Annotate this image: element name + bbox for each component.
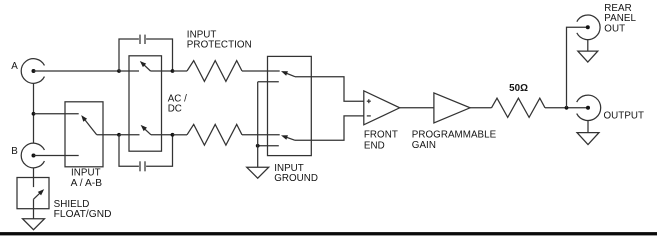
wire ground rail <box>257 82 259 167</box>
resistor R1 input protection (upper) <box>173 61 243 82</box>
resistor R3 50 ohm <box>492 98 546 117</box>
svg-text:B: B <box>11 146 18 157</box>
svg-text:PROTECTION: PROTECTION <box>187 40 252 51</box>
AC/DC coupling box <box>129 56 162 151</box>
node shield rail junction <box>32 112 36 116</box>
label INPUT A / A-B <box>71 167 103 189</box>
wire rear BNC shell to ground <box>587 40 589 51</box>
label INPUT GROUND <box>274 163 318 184</box>
ground (output) <box>577 133 599 145</box>
svg-text:OUT: OUT <box>604 23 625 34</box>
capacitor C2 (AC coupling, lower bypass) <box>119 135 173 172</box>
svg-text:PROGRAMMABLE: PROGRAMMABLE <box>412 130 497 141</box>
svg-text:FRONT: FRONT <box>364 130 398 141</box>
switch S3 AC/DC upper: left contact stub <box>119 70 139 72</box>
label PROGRAMMABLE GAIN <box>412 130 497 152</box>
wire R1 to input-ground switch <box>242 70 280 72</box>
svg-text:GROUND: GROUND <box>274 173 318 184</box>
wire U1 output to U2 <box>400 107 434 109</box>
wire S4 to right junction <box>151 134 173 136</box>
label SHIELD FLOAT/GND <box>54 199 112 220</box>
label AC / DC <box>168 94 187 115</box>
wire S5 ground stub <box>258 81 279 83</box>
node output junction <box>565 106 569 110</box>
wire to shield ground <box>33 209 35 219</box>
svg-text:50Ω: 50Ω <box>509 83 528 94</box>
wire A to AC/DC left junction <box>34 70 120 72</box>
switch S1 INPUT A / A-B box <box>65 102 103 167</box>
node lower channel left junction <box>117 133 121 137</box>
switch S1 lever <box>79 114 96 135</box>
connector A (BNC input) <box>21 59 44 84</box>
label 50 ohm <box>509 83 528 94</box>
connector output (BNC) <box>577 95 601 120</box>
wire B shield to float/gnd switch <box>33 168 35 178</box>
switch S3 lever <box>138 59 150 71</box>
wire S3 to right junction <box>151 70 173 72</box>
svg-text:A / A-B: A / A-B <box>71 178 103 189</box>
label B <box>11 146 18 157</box>
capacitor C1 (AC coupling, upper bypass) <box>119 35 173 71</box>
switch S2 SHIELD FLOAT/GND box <box>17 178 49 209</box>
label OUTPUT <box>604 110 645 121</box>
wire S6 output to front end - <box>295 116 364 140</box>
ground (rear panel out) <box>578 51 598 62</box>
op-amp U2 programmable gain <box>434 93 470 123</box>
connector B (BNC input) <box>21 143 44 168</box>
switch S4 lever <box>139 123 151 135</box>
INPUT GROUND box <box>268 56 312 155</box>
wire S1 common output <box>97 134 119 136</box>
svg-text:GAIN: GAIN <box>412 140 436 151</box>
label A <box>11 61 18 72</box>
wire shield rail A to B <box>33 83 35 143</box>
label FRONT END <box>364 130 398 152</box>
wire to rear panel out <box>567 27 588 108</box>
wire U2 output to R3 <box>470 107 491 109</box>
node ground rail junction <box>256 144 260 148</box>
horizontal rule <box>0 232 657 235</box>
wire R2 to input-ground switch <box>242 134 280 136</box>
wire output BNC shell to ground <box>587 121 589 133</box>
wire S6 ground stub <box>258 145 279 147</box>
node upper channel left junction <box>117 69 121 73</box>
switch S2 contacts and lever <box>34 178 46 209</box>
switch S5 input-ground upper lever <box>280 69 295 77</box>
ground (input ground) <box>247 167 269 178</box>
ground (shield) <box>23 219 45 230</box>
svg-text:A: A <box>11 61 18 72</box>
svg-text:DC: DC <box>168 104 182 115</box>
svg-text:END: END <box>364 140 385 151</box>
connector rear panel out (BNC) <box>577 15 600 40</box>
node lower channel right junction <box>171 133 175 137</box>
node upper channel right junction <box>171 69 175 73</box>
op-amp U1 front end <box>364 91 400 125</box>
wire R3 to output connector <box>545 107 588 109</box>
switch S6 input-ground lower lever <box>280 133 295 140</box>
label INPUT PROTECTION <box>187 30 252 51</box>
wire B center to input-select switch <box>34 155 79 157</box>
svg-text:OUTPUT: OUTPUT <box>604 110 645 121</box>
svg-text:INPUT: INPUT <box>71 167 101 178</box>
resistor R2 input protection (lower) <box>173 124 243 145</box>
svg-text:FLOAT/GND: FLOAT/GND <box>54 209 112 220</box>
switch S4 AC/DC lower: left contact stub <box>119 134 140 136</box>
wire shield junction to input-select switch <box>34 113 79 115</box>
wire S5 output to front end + <box>295 77 364 102</box>
label REAR PANEL OUT <box>604 3 636 34</box>
